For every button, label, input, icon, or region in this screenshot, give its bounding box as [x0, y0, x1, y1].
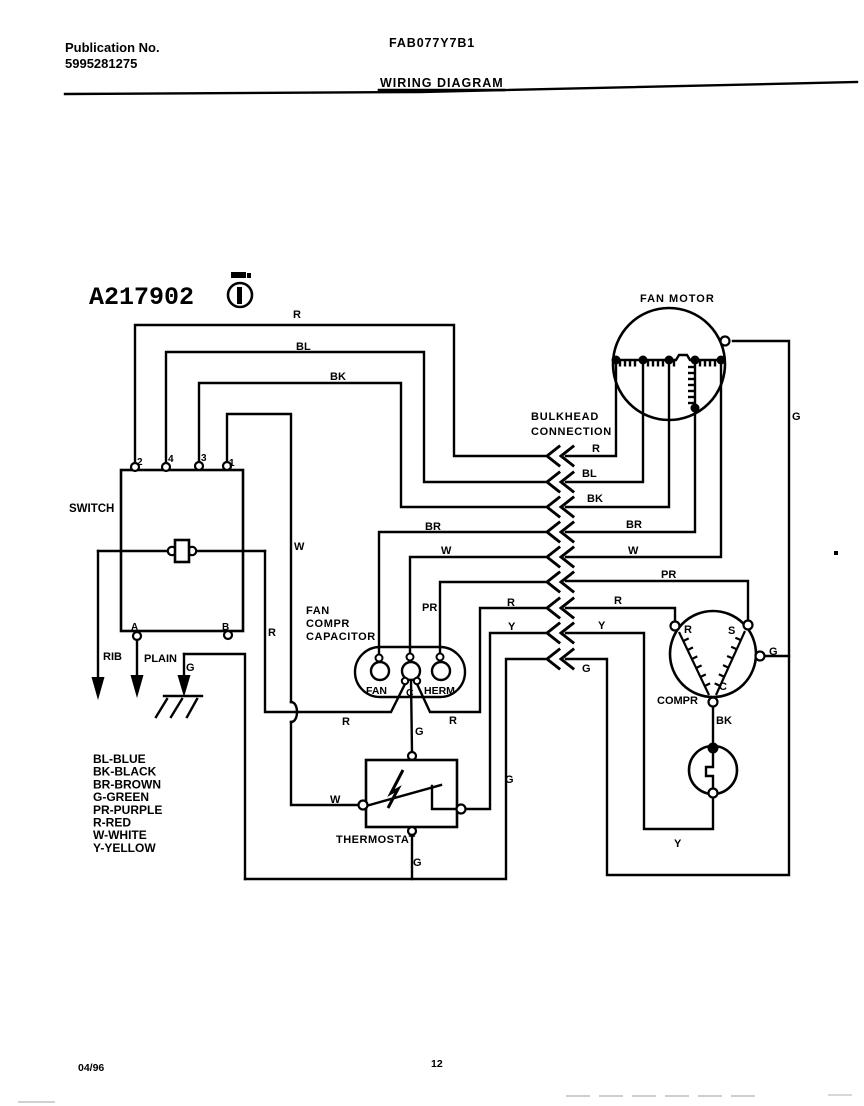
svg-text:04/96: 04/96: [78, 1062, 104, 1074]
svg-text:PLAIN: PLAIN: [144, 653, 177, 665]
svg-text:4: 4: [168, 454, 174, 465]
svg-text:PR: PR: [422, 602, 437, 614]
capacitor FAN terminal: [366, 655, 389, 698]
bulkhead arrow R: [547, 447, 559, 466]
wire BK: compressor C to overload: [713, 707, 732, 746]
svg-text:BK: BK: [716, 715, 732, 727]
wire Y: bulkhead to overload bottom: [566, 633, 713, 829]
thermostat right terminal: [457, 805, 466, 814]
wire G: capacitor C to thermostat top: [411, 680, 424, 752]
svg-text:S: S: [728, 625, 735, 637]
bulkhead arrow BK: [547, 498, 559, 517]
svg-text:FAB077Y7B1: FAB077Y7B1: [389, 36, 475, 50]
wire G: ground to bottom bus: [184, 654, 245, 879]
svg-text:FAN MOTOR: FAN MOTOR: [640, 293, 715, 305]
compressor run winding: [679, 632, 710, 695]
svg-text:R: R: [592, 443, 600, 455]
fan motor tap junction dots: [612, 356, 726, 365]
bulkhead arrow G: [547, 650, 559, 669]
svg-text:W: W: [294, 541, 305, 553]
svg-text:Y: Y: [508, 621, 516, 633]
thermostat box: [336, 760, 457, 846]
PLAIN lead arrow: [131, 640, 178, 698]
thermostat fixed contact: [432, 786, 457, 809]
part number A217902: [89, 283, 194, 312]
svg-text:W: W: [330, 794, 341, 806]
fan motor body: [613, 308, 725, 420]
svg-text:COMPR: COMPR: [306, 618, 350, 630]
capacitor label: [306, 605, 376, 643]
switch terminal B: [222, 622, 232, 639]
svg-text:G: G: [769, 646, 778, 658]
svg-text:COMPR: COMPR: [657, 695, 698, 707]
svg-text:Y: Y: [674, 838, 682, 850]
fan motor G terminal: [721, 337, 730, 346]
RIB lead arrow: [92, 551, 123, 700]
svg-text:BK: BK: [587, 493, 603, 505]
svg-text:CAPACITOR: CAPACITOR: [306, 631, 376, 643]
svg-text:A217902: A217902: [89, 283, 194, 312]
svg-text:CONNECTION: CONNECTION: [531, 426, 612, 438]
switch pin 1: [223, 458, 235, 470]
wire R: switch middle to capacitor C bottom, hop over W: [265, 551, 405, 728]
svg-text:BK: BK: [330, 371, 346, 383]
wire PR: bulkhead to capacitor HERM terminal: [440, 582, 545, 654]
wire G: thermostat bottom to ground bus: [412, 835, 422, 879]
svg-text:WIRING DIAGRAM: WIRING DIAGRAM: [380, 76, 504, 90]
svg-text:R: R: [684, 624, 692, 636]
svg-text:R: R: [449, 715, 457, 727]
ground symbol: [156, 696, 202, 717]
svg-text:5995281275: 5995281275: [65, 56, 137, 71]
svg-text:RIB: RIB: [103, 651, 122, 663]
switch pin 3: [195, 453, 207, 470]
thermostat left terminal: [359, 801, 368, 810]
timer symbol: [228, 272, 252, 307]
svg-text:1: 1: [229, 458, 235, 469]
wire G: bulkhead right to fan motor G terminal: [566, 341, 789, 875]
thermostat switch blade: [366, 785, 441, 806]
svg-text:G: G: [186, 662, 195, 674]
wire color legend: [93, 752, 162, 855]
HEADER: [65, 36, 857, 94]
svg-text:R: R: [268, 627, 276, 639]
svg-text:R: R: [293, 309, 301, 321]
svg-text:SWITCH: SWITCH: [69, 503, 114, 515]
compressor G terminal: [756, 646, 790, 661]
stray scan dot: [834, 551, 838, 555]
thermostat actuator zigzag: [388, 770, 403, 808]
bulkhead connection label: [531, 411, 612, 438]
overload protector: [689, 743, 737, 798]
svg-text:G: G: [505, 774, 514, 786]
wire W: switch pin1 down to thermostat left, with hop over R: [227, 414, 361, 806]
wire BK: switch pin3 to bulkhead, label BK: [199, 371, 545, 507]
wire BL: switch pin4 to bulkhead, label BL: [166, 341, 545, 482]
svg-text:FAN: FAN: [366, 685, 387, 697]
svg-text:A: A: [131, 622, 138, 633]
svg-text:C: C: [719, 681, 727, 693]
wire Y: bulkhead to thermostat right terminal: [466, 633, 545, 809]
svg-text:12: 12: [431, 1058, 443, 1070]
svg-text:R: R: [342, 716, 350, 728]
switch internal line with thermal fuse: [98, 540, 265, 562]
compressor C terminal: [709, 681, 728, 707]
FOOTER: [18, 1058, 852, 1102]
svg-text:G: G: [792, 411, 801, 423]
svg-text:Y: Y: [598, 620, 606, 632]
wire R: bulkhead to compressor R terminal: [566, 608, 675, 622]
ground lead arrow: [178, 654, 191, 697]
wire R: switch pin2 to bulkhead, label R: [135, 309, 545, 468]
bulkhead arrow W: [547, 548, 559, 567]
svg-text:G: G: [582, 663, 591, 675]
wire G: bulkhead to bottom ground bus: [245, 659, 545, 879]
compressor R terminal: [671, 622, 693, 637]
svg-text:Publication No.: Publication No.: [65, 40, 160, 55]
wire BK: fan motor tap3 to bulkhead: [566, 362, 669, 507]
wire BR: fan motor start coil to bulkhead: [566, 408, 695, 532]
bulkhead arrow Y: [547, 624, 559, 643]
thermostat top terminal: [408, 752, 416, 760]
svg-text:W: W: [628, 545, 639, 557]
switch pin 2: [131, 457, 143, 471]
wire BL: fan motor tap2 to bulkhead: [566, 362, 643, 482]
svg-text:G: G: [415, 726, 424, 738]
svg-text:Y-YELLOW: Y-YELLOW: [93, 841, 156, 855]
capacitor body: [355, 647, 465, 697]
svg-text:BL: BL: [296, 341, 311, 353]
svg-text:G: G: [413, 857, 422, 869]
wire R: fan motor tap1 to bulkhead: [566, 362, 616, 456]
compressor S terminal: [728, 621, 753, 638]
fan motor winding ticks: [620, 360, 715, 367]
svg-text:PR: PR: [661, 569, 676, 581]
svg-text:BULKHEAD: BULKHEAD: [531, 411, 599, 423]
svg-text:3: 3: [201, 453, 207, 464]
bulkhead connector arrows (9 double chevrons): [547, 447, 573, 669]
svg-text:B: B: [222, 622, 229, 633]
svg-text:W: W: [441, 545, 452, 557]
svg-text:FAN: FAN: [306, 605, 330, 617]
capacitor C terminal: [402, 654, 420, 700]
bulkhead arrow PR: [547, 573, 559, 592]
bulkhead arrow BL: [547, 473, 559, 492]
wire W: bulkhead to capacitor C terminal: [410, 557, 545, 654]
bulkhead arrow BR: [547, 523, 559, 542]
wire R: bulkhead to capacitor C bottom right: [417, 608, 545, 712]
compressor start winding: [715, 631, 745, 695]
svg-text:BL: BL: [582, 468, 597, 480]
wire BR: bulkhead to capacitor FAN terminal: [379, 532, 545, 656]
svg-text:2: 2: [137, 457, 143, 468]
bulkhead arrow R2: [547, 599, 559, 618]
wire PR: bulkhead to compressor S terminal: [566, 581, 748, 621]
svg-text:THERMOSTAT: THERMOSTAT: [336, 834, 416, 846]
wire W: fan motor tap5 to bulkhead: [566, 362, 721, 557]
fan motor start coil vertical: [688, 362, 700, 413]
switch box: [69, 470, 243, 631]
svg-text:R: R: [614, 595, 622, 607]
svg-text:BR: BR: [626, 519, 642, 531]
svg-text:HERM: HERM: [424, 685, 455, 697]
capacitor HERM terminal: [424, 654, 455, 698]
compressor body: [670, 611, 756, 697]
switch pin 4: [162, 454, 174, 471]
switch terminal A: [131, 622, 141, 640]
thermostat bottom terminal: [408, 827, 416, 835]
